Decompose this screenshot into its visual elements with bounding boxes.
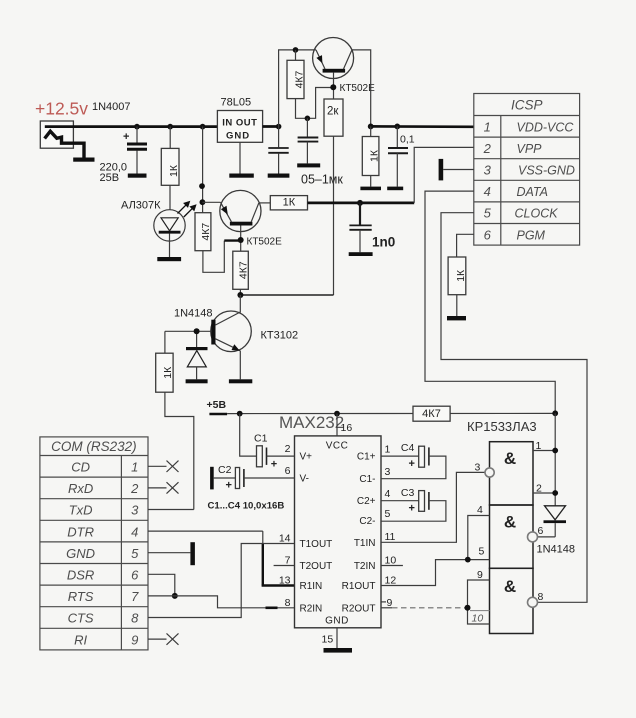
- wire CD nc: [148, 461, 179, 472]
- connector COM (RS232) table: [40, 437, 148, 650]
- svg-text:1N4148: 1N4148: [174, 308, 213, 320]
- svg-text:АЛ307К: АЛ307К: [121, 200, 161, 212]
- ground (R5): [360, 187, 381, 191]
- svg-text:2: 2: [130, 481, 139, 496]
- svg-text:R2IN: R2IN: [300, 603, 323, 614]
- regulator U2 78L05: [217, 111, 262, 174]
- wire TxD: [148, 509, 194, 511]
- svg-text:7: 7: [285, 555, 291, 567]
- svg-text:C1-: C1-: [359, 474, 375, 485]
- wire +5V rail: [209, 412, 555, 415]
- svg-text:9: 9: [477, 569, 483, 581]
- node rail-Q1 branch: [200, 124, 206, 130]
- svg-text:7: 7: [131, 589, 139, 604]
- svg-text:4К7: 4К7: [238, 261, 250, 279]
- svg-text:1К: 1К: [162, 366, 174, 379]
- svg-text:RTS: RTS: [68, 589, 94, 604]
- node +5V VCC: [334, 411, 340, 417]
- svg-text:2: 2: [536, 483, 542, 495]
- connector ICSP table: [474, 94, 580, 246]
- svg-text:6: 6: [131, 568, 139, 583]
- svg-text:VPP: VPP: [517, 142, 543, 156]
- node DSR-RTS: [172, 593, 178, 599]
- svg-text:&: &: [504, 577, 516, 596]
- wire Q2 emitter riser: [279, 50, 316, 127]
- svg-text:GND: GND: [325, 616, 349, 627]
- capacitor 220,0 25V: [123, 127, 147, 174]
- svg-text:1К: 1К: [168, 164, 180, 177]
- svg-text:9: 9: [131, 632, 138, 647]
- svg-text:+12.5v: +12.5v: [35, 99, 88, 119]
- svg-text:1: 1: [131, 460, 138, 475]
- wire DTR to R1IN: [148, 531, 295, 585]
- capacitor C2: [210, 464, 294, 492]
- wire gate2 pin5: [468, 559, 490, 561]
- ground (1n0): [349, 252, 373, 256]
- capacitor 0,1: [388, 126, 408, 186]
- wire MAX232 gnd pin15: [336, 628, 338, 648]
- svg-text:КР1533ЛА3: КР1533ЛА3: [467, 419, 537, 434]
- svg-text:15: 15: [322, 634, 334, 646]
- resistor R6 4K7 (Q1 base lower): [233, 251, 250, 295]
- ic U1 MAX232: [279, 413, 397, 628]
- svg-text:1: 1: [484, 119, 491, 134]
- svg-text:C4: C4: [401, 442, 415, 454]
- wire GND (COM5): [148, 552, 190, 554]
- svg-text:1n0: 1n0: [372, 235, 395, 250]
- ground (VD2): [186, 379, 208, 383]
- node Q2 base: [330, 84, 336, 90]
- wire 78L05 out: [263, 125, 279, 128]
- svg-text:78L05: 78L05: [221, 97, 252, 109]
- svg-text:GND: GND: [66, 546, 95, 561]
- svg-text:VCC: VCC: [326, 441, 349, 452]
- wire DSR: [148, 574, 175, 596]
- svg-text:14: 14: [279, 533, 291, 545]
- wire R2OUT dashed: [381, 607, 468, 609]
- svg-text:6: 6: [538, 525, 544, 537]
- wire DATA: [425, 191, 555, 413]
- svg-text:RI: RI: [74, 632, 87, 647]
- svg-text:1: 1: [536, 440, 542, 452]
- svg-text:4: 4: [131, 524, 138, 539]
- wire +12V rail: [45, 125, 218, 128]
- ground (LED): [157, 257, 181, 261]
- wire CLOCK: [441, 213, 587, 603]
- svg-text:C2-: C2-: [359, 516, 375, 527]
- svg-text:T1OUT: T1OUT: [300, 539, 333, 550]
- ic U3 KR1533LA3 gate1: [490, 442, 534, 505]
- wire VPP to ICSP pin2: [414, 147, 474, 203]
- svg-text:10: 10: [385, 554, 397, 566]
- svg-text:10: 10: [472, 613, 484, 625]
- svg-text:4: 4: [385, 488, 391, 500]
- wire gate1 pin1: [533, 450, 555, 452]
- svg-text:RxD: RxD: [68, 481, 93, 496]
- svg-text:&: &: [504, 512, 516, 531]
- svg-text:2к: 2к: [327, 106, 339, 118]
- svg-text:6: 6: [285, 465, 291, 477]
- svg-text:4К7: 4К7: [293, 70, 305, 88]
- svg-text:8: 8: [538, 591, 544, 603]
- svg-text:КТ3102: КТ3102: [261, 330, 299, 342]
- ground (C5): [268, 174, 290, 178]
- svg-text:T2IN: T2IN: [354, 561, 376, 572]
- ground (R8): [447, 316, 466, 320]
- svg-text:MAX232: MAX232: [279, 413, 344, 432]
- svg-text:R2OUT: R2OUT: [342, 603, 376, 614]
- node Q1 emitter: [200, 199, 206, 205]
- svg-text:1N4148: 1N4148: [537, 544, 576, 556]
- wire T2OUT stub: [274, 565, 295, 567]
- wire RxD nc: [148, 482, 179, 493]
- wire gate1 pin2: [533, 492, 555, 494]
- wire RI nc: [148, 633, 179, 644]
- svg-text:T2OUT: T2OUT: [300, 561, 333, 572]
- svg-text:C1: C1: [254, 433, 268, 445]
- wire R1OUT to gate2: [381, 560, 468, 586]
- power jack XS1: [40, 121, 84, 158]
- svg-text:0,1: 0,1: [400, 134, 415, 146]
- svg-text:8: 8: [285, 597, 291, 609]
- svg-text:2: 2: [285, 443, 291, 455]
- svg-text:+: +: [123, 131, 129, 143]
- svg-text:DATA: DATA: [517, 185, 548, 199]
- capacitor 1n0: [349, 203, 371, 252]
- LED arrows: [178, 202, 196, 217]
- ic U3 gate3: [490, 568, 534, 633]
- svg-text:КТ502Е: КТ502Е: [340, 83, 376, 94]
- resistor R1 1K (LED branch): [161, 127, 179, 210]
- svg-text:1К: 1К: [455, 269, 467, 282]
- wire RTS to R2IN: [148, 596, 295, 608]
- wire gate2 pin4: [468, 516, 490, 560]
- node DATA-4K7: [552, 410, 558, 416]
- node VPP-1n0: [357, 200, 363, 206]
- ground (COM5): [190, 542, 195, 565]
- svg-text:CD: CD: [71, 460, 90, 475]
- bubble gate1 out pin3: [485, 468, 494, 477]
- svg-text:T1IN: T1IN: [354, 538, 376, 549]
- ground (05-1mk): [297, 163, 320, 167]
- ic U3 gate2: [490, 505, 534, 568]
- svg-text:25В: 25В: [100, 172, 120, 184]
- svg-text:&: &: [504, 449, 516, 468]
- capacitor 05-1mk: [298, 118, 319, 163]
- svg-text:05–1мк: 05–1мк: [301, 173, 343, 187]
- wire DATA node column: [554, 413, 556, 506]
- svg-text:КТ502Е: КТ502Е: [247, 237, 283, 248]
- resistor R5 1K (VDD load): [362, 126, 380, 186]
- wire PGM: [457, 234, 474, 257]
- node collector KT3102: [237, 292, 243, 298]
- ground (C220): [128, 174, 147, 178]
- svg-text:5: 5: [484, 206, 492, 221]
- node VDD-R5: [368, 124, 374, 130]
- svg-text:V-: V-: [300, 473, 309, 484]
- svg-text:8: 8: [131, 611, 139, 626]
- node 05-1mk tap: [305, 116, 311, 122]
- wire RTS thick mark: [266, 606, 278, 609]
- resistor R2 4K7 (Q1 base-emitter): [195, 213, 241, 273]
- svg-text:6: 6: [484, 227, 492, 242]
- diode VD1 1N4148: [537, 506, 566, 537]
- resistor R10 4K7: [413, 406, 450, 421]
- node gate1 pin2: [552, 490, 558, 496]
- diode VD2 1N4148: [186, 331, 208, 379]
- capacitor C5 (after 78L05): [268, 127, 288, 174]
- node stray: [199, 183, 205, 189]
- svg-text:11: 11: [385, 531, 396, 543]
- svg-text:2: 2: [483, 141, 492, 156]
- svg-text:1: 1: [385, 443, 391, 455]
- node gate3 inputs: [465, 605, 471, 611]
- bubble gate3 out pin8: [528, 597, 538, 607]
- node Q3 base-diode: [194, 328, 200, 334]
- bubble gate2 out pin6: [528, 532, 538, 542]
- svg-text:CLOCK: CLOCK: [515, 207, 559, 221]
- svg-text:3: 3: [475, 462, 481, 474]
- svg-text:IN OUT: IN OUT: [222, 118, 257, 129]
- svg-text:+: +: [409, 503, 415, 515]
- svg-text:C2: C2: [218, 464, 232, 476]
- svg-text:V+: V+: [300, 451, 313, 462]
- svg-text:12: 12: [385, 574, 397, 586]
- LED AL307K: [154, 210, 185, 257]
- svg-text:GND: GND: [226, 131, 250, 142]
- svg-text:CTS: CTS: [68, 611, 94, 626]
- svg-text:C2+: C2+: [357, 496, 376, 507]
- resistor R8 1K (PGM pulldown): [448, 257, 467, 316]
- wire VPP heavy: [308, 202, 415, 205]
- node gate2 inputs: [465, 557, 471, 563]
- wire VDD rail to ICSP pin1: [369, 125, 473, 128]
- svg-text:1N4007: 1N4007: [92, 101, 131, 113]
- resistor R3 4K7 (Q2 base-emitter): [287, 50, 305, 99]
- ground (MAX232): [324, 648, 353, 653]
- node rail-R1: [167, 124, 173, 130]
- svg-text:5: 5: [479, 546, 485, 558]
- svg-text:3: 3: [131, 503, 139, 518]
- svg-text:+: +: [409, 458, 415, 470]
- pin label 10 boxed: [470, 611, 490, 625]
- svg-text:VSS-GND: VSS-GND: [518, 164, 575, 178]
- svg-text:+5В: +5В: [207, 399, 227, 411]
- svg-text:COM (RS232): COM (RS232): [51, 439, 137, 454]
- node Q1 base: [238, 237, 244, 243]
- node 5V out: [276, 124, 282, 130]
- transistor Q3 KT3102: [165, 295, 251, 379]
- svg-text:+: +: [226, 480, 232, 492]
- ground (Q3 emitter): [229, 379, 252, 383]
- wire Q1 branch riser: [202, 127, 204, 213]
- node Q2 emitter / R 4K7: [293, 47, 299, 53]
- wire T1IN from gate1 out: [381, 472, 485, 542]
- svg-text:DTR: DTR: [67, 524, 94, 539]
- svg-text:1К: 1К: [368, 149, 380, 162]
- transistor Q2 KT502E: [313, 38, 354, 100]
- svg-text:С1...С4 10,0х16В: С1...С4 10,0х16В: [208, 501, 285, 512]
- wire R3 to Q2 base loop: [296, 88, 332, 119]
- svg-text:1К: 1К: [283, 197, 296, 209]
- wire T2IN stub: [381, 565, 403, 567]
- svg-text:TxD: TxD: [69, 503, 93, 518]
- svg-text:4К7: 4К7: [422, 408, 441, 420]
- svg-text:5: 5: [131, 546, 139, 561]
- svg-text:VDD-VCC: VDD-VCC: [517, 120, 575, 134]
- svg-text:4: 4: [477, 504, 483, 516]
- resistor R9 1K (TxD): [156, 331, 194, 509]
- node +5V C1: [237, 411, 243, 417]
- wire Q2 collector: [352, 50, 371, 127]
- wire 2k to KT3102 collector node: [240, 294, 333, 296]
- node rail-C220: [134, 124, 140, 130]
- wire CTS to T1OUT: [148, 544, 295, 618]
- svg-text:PGM: PGM: [517, 228, 546, 242]
- svg-text:3: 3: [484, 163, 492, 178]
- svg-text:+: +: [271, 459, 277, 471]
- svg-text:5: 5: [385, 508, 391, 520]
- node VDD-C01: [394, 124, 400, 130]
- node gate1 pin1: [552, 448, 558, 454]
- svg-text:DSR: DSR: [67, 568, 94, 583]
- resistor R7 1K (Q1 collector, horizontal): [259, 196, 308, 210]
- capacitor C1: [240, 414, 295, 471]
- svg-text:3: 3: [385, 466, 391, 478]
- capacitor C3: [381, 487, 446, 521]
- wire ICSP pin3: [443, 169, 474, 171]
- ground (ICSP pin3): [439, 159, 444, 181]
- ground (78L05): [229, 174, 254, 178]
- resistor R4 2k: [324, 99, 343, 295]
- svg-text:R1IN: R1IN: [300, 581, 323, 592]
- transistor Q1 KT502E: [202, 190, 261, 251]
- svg-text:C3: C3: [401, 487, 415, 499]
- svg-text:9: 9: [387, 597, 393, 609]
- svg-text:R1OUT: R1OUT: [342, 581, 376, 592]
- svg-text:C1+: C1+: [357, 452, 376, 463]
- svg-text:13: 13: [279, 575, 291, 587]
- ground (0,1): [387, 187, 403, 191]
- wire gate3 pin9: [468, 580, 490, 624]
- svg-text:ICSP: ICSP: [511, 98, 543, 113]
- svg-text:4: 4: [484, 184, 491, 199]
- svg-text:16: 16: [341, 422, 353, 434]
- svg-text:4К7: 4К7: [200, 223, 212, 241]
- ground (jack): [73, 158, 94, 162]
- capacitor C4: [381, 442, 446, 479]
